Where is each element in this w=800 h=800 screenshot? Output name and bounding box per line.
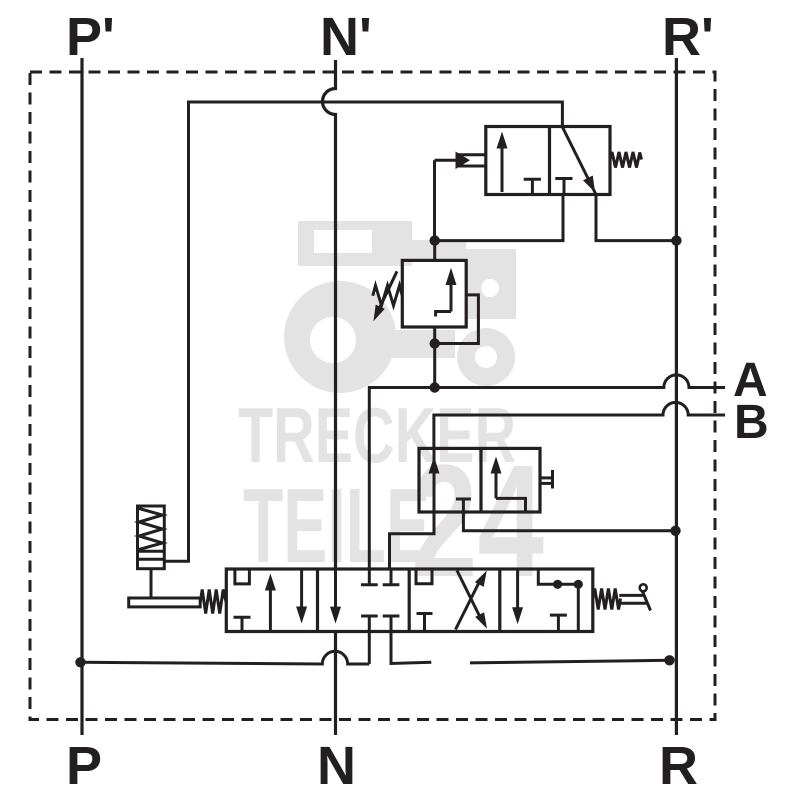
wire P'-P vertical line bbox=[80, 58, 83, 735]
V1 cell3 cross arrow down bbox=[457, 571, 487, 629]
svg-text:N: N bbox=[317, 736, 356, 796]
V1 cell2 top blocked T a bbox=[361, 569, 378, 585]
V1 cell3 cross arrow up bbox=[456, 571, 487, 630]
V1 cell3 blocked port T bbox=[417, 614, 433, 632]
wire pilot tap down from U1 pilot bbox=[433, 160, 436, 240]
wire pilot supply: spring box to 3/2 pilot valve top bbox=[164, 102, 562, 561]
V2 pilot sense loop bbox=[435, 295, 479, 344]
svg-text:R: R bbox=[659, 736, 698, 796]
valve U1 3/2 pilot directional valve body bbox=[486, 127, 610, 195]
actuator stem bbox=[150, 569, 153, 598]
V1 cell4 blocked port T bbox=[550, 615, 567, 631]
wire V3 bottom-left port to main valve bbox=[390, 512, 435, 569]
pilot spring actuator box bbox=[138, 506, 165, 569]
V2 adjustable spring bbox=[373, 286, 403, 306]
svg-text:N': N' bbox=[320, 7, 372, 67]
wire V1 bottom port open segment bbox=[391, 632, 431, 664]
svg-text:P: P bbox=[66, 736, 102, 796]
junction dot A line / relief outlet bbox=[430, 382, 440, 392]
wire relief valve outlet down to A line bbox=[433, 327, 436, 388]
svg-text:B: B bbox=[734, 396, 769, 449]
U1 right position diagonal flow arrow bbox=[562, 127, 596, 195]
V3 plugged side port fitting bbox=[540, 470, 553, 489]
U1 left position blocked port T bbox=[524, 179, 541, 194]
V3 left cell blocked port T bbox=[456, 499, 471, 512]
U1 right position blocked port T bbox=[555, 179, 572, 195]
junction dot node at relief valve inlet bbox=[430, 235, 440, 245]
wire R'-R vertical line bbox=[675, 58, 678, 735]
V1 left spring bbox=[200, 590, 226, 614]
V1 cell2 bottom blocked T b bbox=[383, 616, 400, 632]
V3 right cell L path bbox=[496, 498, 526, 512]
V1 manual push rod bbox=[129, 598, 201, 607]
svg-text:P': P' bbox=[66, 7, 115, 67]
actuator piston lines bbox=[138, 551, 165, 559]
V1 cell4 down arrow bbox=[512, 569, 523, 624]
V1 cell4 ball dot b bbox=[574, 580, 583, 589]
check valve block V3 body bbox=[419, 448, 540, 512]
junction dot on R line bbox=[671, 235, 681, 245]
wire carryover segment to R line bbox=[470, 660, 670, 663]
V1 cell1 top notch bbox=[235, 569, 250, 584]
V1 cell4 ball dot a bbox=[553, 580, 562, 589]
wire U1 bottom port to node bbox=[435, 195, 563, 241]
V1 cell1 down arrow bbox=[296, 569, 307, 624]
junction dot on P line bbox=[75, 657, 85, 667]
junction dot on R line at y530 bbox=[670, 526, 680, 536]
V2 internal flow arrow bbox=[436, 268, 457, 317]
wire carryover P to N (with hop over N line) bbox=[81, 651, 370, 664]
actuator spring zigzag bbox=[139, 509, 163, 550]
V1 cell3 top notch bbox=[416, 569, 432, 584]
wire V3 middle port to R line bbox=[463, 512, 675, 531]
U1 return spring bbox=[610, 152, 642, 168]
V3 right cell flow arrow bbox=[491, 457, 502, 499]
V1 cell2 N flow arrow bbox=[330, 569, 341, 624]
wire N below main valve bbox=[334, 632, 337, 736]
V1 cell1 blocked port T bbox=[234, 617, 251, 631]
junction dot pilot loop bbox=[430, 338, 440, 348]
V3 left cell flow arrow bbox=[429, 448, 440, 512]
wire port B line (check block to port B with hop over R) bbox=[434, 402, 725, 448]
V1 cell1 up arrow bbox=[265, 574, 276, 632]
V1 manual lever with knob bbox=[619, 584, 650, 610]
wire U1 drain port to R line bbox=[596, 195, 676, 241]
svg-text:R': R' bbox=[662, 7, 714, 67]
U1 left position flow arrow bbox=[497, 132, 508, 193]
V1 cell2 bottom blocked T a bbox=[361, 616, 378, 632]
wire V1 bottom port to carryover line bbox=[368, 632, 371, 664]
wire port A line (main valve to port A with hop over R) bbox=[369, 375, 725, 569]
wire relief valve inlet bbox=[433, 241, 436, 261]
V1 cell2 top blocked T b bbox=[383, 569, 400, 585]
valve block enclosure (dashed boundary) bbox=[30, 72, 715, 720]
V1 cell4 ball path bbox=[538, 569, 578, 632]
relief valve V2 body bbox=[402, 260, 466, 327]
wire N'-N vertical line with crossover hop bbox=[323, 60, 336, 569]
U1 hydraulic pilot actuator (solid triangle) bbox=[435, 152, 486, 170]
junction dot at R line bottom bbox=[664, 655, 674, 665]
V2 adjustment arrow across spring bbox=[373, 271, 397, 321]
main directional valve V1 body bbox=[226, 569, 593, 632]
V1 right spring bbox=[593, 589, 621, 610]
